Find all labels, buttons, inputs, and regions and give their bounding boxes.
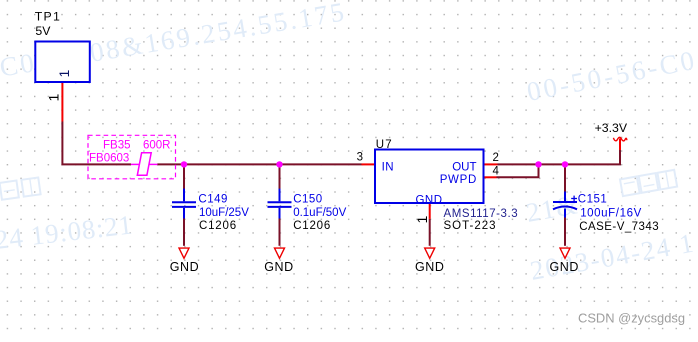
- svg-text:10uF/25V: 10uF/25V: [199, 207, 249, 219]
- svg-text:0.1uF/50V: 0.1uF/50V: [293, 207, 346, 219]
- svg-text:2: 2: [493, 152, 499, 164]
- svg-text:+3.3V: +3.3V: [595, 121, 628, 135]
- svg-text:C149: C149: [198, 193, 228, 205]
- svg-text:AMS1117-3.3: AMS1117-3.3: [444, 208, 519, 220]
- svg-text:5V: 5V: [35, 24, 51, 38]
- svg-text:OUT: OUT: [452, 161, 476, 173]
- svg-text:GND: GND: [264, 260, 293, 274]
- svg-text:GND: GND: [549, 260, 578, 274]
- svg-text:U7: U7: [376, 139, 393, 151]
- svg-text:CASE-V_7343: CASE-V_7343: [579, 221, 659, 233]
- svg-text:1: 1: [414, 216, 430, 224]
- svg-text:600R: 600R: [143, 140, 171, 152]
- svg-text:4: 4: [493, 166, 500, 178]
- svg-text:1: 1: [46, 94, 62, 102]
- svg-text:TP1: TP1: [35, 9, 61, 23]
- svg-text:100uF/16V: 100uF/16V: [580, 208, 642, 220]
- svg-text:C151: C151: [578, 193, 608, 205]
- svg-text:IN: IN: [382, 161, 395, 173]
- svg-text:1: 1: [56, 70, 72, 78]
- svg-text:C1206: C1206: [293, 220, 331, 232]
- svg-text:C150: C150: [293, 193, 323, 205]
- svg-text:PWPD: PWPD: [440, 174, 477, 186]
- svg-text:CSDN @zycsgdsg: CSDN @zycsgdsg: [578, 311, 685, 326]
- svg-text:FB0603: FB0603: [89, 153, 129, 165]
- svg-text:SOT-223: SOT-223: [444, 220, 497, 232]
- svg-text:GND: GND: [415, 194, 442, 206]
- svg-text:FB35: FB35: [103, 140, 131, 152]
- svg-text:C1206: C1206: [199, 220, 237, 232]
- svg-text:3: 3: [357, 151, 363, 163]
- svg-text:GND: GND: [415, 260, 444, 274]
- svg-text:GND: GND: [170, 260, 199, 274]
